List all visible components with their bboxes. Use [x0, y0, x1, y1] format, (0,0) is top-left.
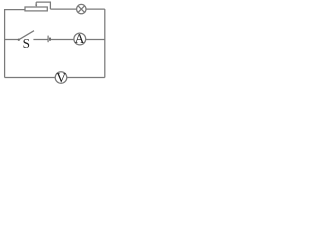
- slider arrow: [35, 2, 37, 7]
- resistor R1 (rheostat body): [25, 7, 47, 11]
- voltmeter V: [55, 72, 67, 84]
- wire: [86, 39, 105, 41]
- wire: [5, 10, 25, 78]
- label V: [56, 73, 66, 82]
- ammeter A: [74, 33, 86, 45]
- wire: [67, 77, 105, 79]
- lamp L1: [77, 4, 86, 13]
- label A: [75, 34, 84, 43]
- battery B1: [48, 36, 50, 43]
- wire: [36, 2, 50, 9]
- wire: [50, 8, 76, 10]
- wire: [51, 39, 74, 41]
- label S: [23, 39, 29, 48]
- wire: [5, 39, 19, 41]
- wire: [104, 9, 106, 77]
- switch S: [18, 31, 34, 41]
- wire: [86, 8, 105, 10]
- wire: [5, 77, 56, 79]
- wire: [33, 39, 47, 41]
